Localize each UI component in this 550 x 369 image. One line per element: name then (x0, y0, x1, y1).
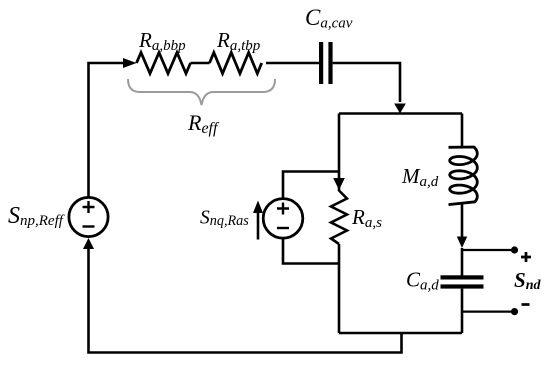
label Ra,bbp (138, 28, 186, 54)
label - (522, 303, 530, 306)
label R_eff (187, 110, 220, 137)
terminal - dot (511, 308, 518, 315)
capacitor Ca,d (441, 275, 484, 288)
resistor Ra,s (331, 191, 347, 245)
wire box bottom edge (339, 332, 462, 335)
label S_nq,Ras (200, 208, 249, 230)
arrow into box top (394, 104, 406, 114)
label Ca,cav (305, 5, 353, 32)
arrow up into source (83, 238, 94, 249)
label Ma,d (401, 164, 439, 190)
arrow above node (457, 237, 467, 249)
wire stub from source S_nq bottom (283, 238, 339, 263)
wire (461, 248, 464, 276)
wire (461, 289, 464, 333)
label Ra,tbp (216, 28, 261, 54)
wire (333, 63, 400, 102)
wire (461, 205, 464, 238)
wire (89, 247, 402, 353)
label S_np,Reff (8, 203, 65, 229)
terminal + dot (511, 246, 518, 253)
wire to - terminal (462, 311, 511, 313)
arrow on top wire (123, 58, 137, 68)
resistor Ra,bbp (137, 53, 191, 74)
wire (89, 63, 124, 198)
current source S_nq,Ras (263, 199, 303, 239)
wire (191, 62, 210, 65)
resistor Ra,tbp (210, 53, 262, 74)
voltage source S_np,Reff (69, 197, 108, 236)
inductor Ma,d (449, 147, 478, 205)
brace R_eff (128, 79, 275, 105)
wire box top edge (339, 112, 462, 115)
arrow beside S_nq,Ras (253, 201, 263, 240)
arrow into Ra,s (333, 178, 345, 190)
label Ra,s (351, 205, 382, 231)
wire stub to source S_nq top (283, 172, 339, 199)
label + (521, 252, 531, 262)
wire (266, 62, 319, 65)
wire box left edge lower (338, 244, 341, 333)
wire box left edge upper (338, 114, 341, 192)
label Ca,d (406, 268, 439, 294)
wire to + terminal (462, 249, 511, 251)
label Snd (514, 268, 541, 293)
capacitor Ca,cav (319, 42, 333, 84)
wire box right edge upper (461, 114, 464, 147)
